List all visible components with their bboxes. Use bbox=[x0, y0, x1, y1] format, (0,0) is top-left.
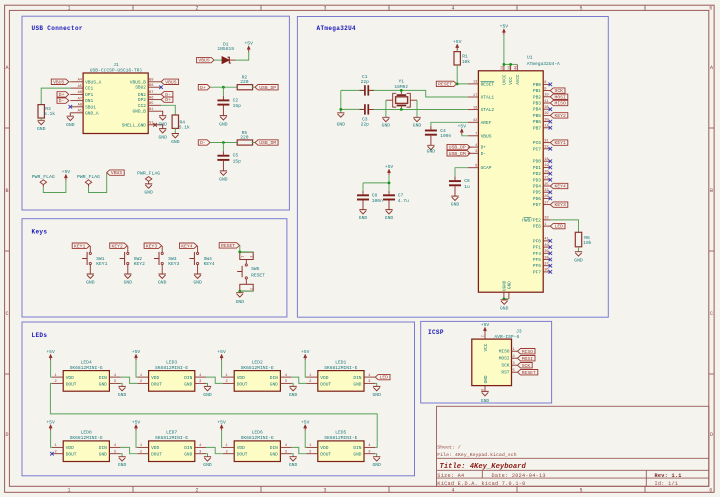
svg-text:XTAL1: XTAL1 bbox=[481, 95, 495, 101]
label MOSI (U1 PB2) bbox=[550, 94, 568, 100]
svg-text:DOUT: DOUT bbox=[66, 452, 77, 458]
svg-text:PWR_FLAG: PWR_FLAG bbox=[137, 171, 160, 177]
svg-text:44: 44 bbox=[514, 66, 518, 70]
svg-text:+5V: +5V bbox=[385, 164, 394, 170]
svg-text:GND: GND bbox=[359, 215, 368, 221]
label D- (to R5) bbox=[198, 140, 210, 146]
svg-text:3: 3 bbox=[323, 488, 326, 494]
svg-text:B1: B1 bbox=[149, 108, 154, 112]
power +5V (LED2) bbox=[217, 349, 226, 360]
svg-text:A6: A6 bbox=[78, 91, 82, 95]
svg-text:SK6812MINI-E: SK6812MINI-E bbox=[241, 435, 274, 441]
wire VBUS to D1 anode bbox=[214, 59, 222, 61]
wire XTAL1 net bbox=[341, 90, 468, 97]
svg-text:VDD: VDD bbox=[237, 375, 245, 381]
LED LED1 SK6812MINI-E bbox=[307, 359, 376, 391]
svg-text:A8: A8 bbox=[78, 104, 82, 108]
svg-text:GND: GND bbox=[203, 462, 212, 468]
svg-text:DOUT: DOUT bbox=[66, 381, 77, 387]
crystal Y1 16MHz bbox=[386, 79, 417, 110]
svg-text:KEY3: KEY3 bbox=[168, 261, 179, 267]
svg-text:25: 25 bbox=[544, 183, 548, 187]
label SCK (U1 PB1) bbox=[550, 88, 565, 94]
svg-text:+5V: +5V bbox=[301, 419, 310, 425]
svg-text:AREF: AREF bbox=[481, 120, 492, 126]
svg-text:SK6812MINI-E: SK6812MINI-E bbox=[70, 365, 103, 371]
svg-text:GND: GND bbox=[193, 279, 202, 285]
power +5V (LED4) bbox=[46, 349, 55, 360]
ground C8 bbox=[359, 210, 368, 222]
label D- (J1 left) bbox=[57, 98, 69, 104]
junction (D- / C5) bbox=[222, 141, 225, 144]
svg-text:DOUT: DOUT bbox=[151, 381, 162, 387]
svg-text:SK6812MINI-E: SK6812MINI-E bbox=[324, 365, 357, 371]
svg-text:10: 10 bbox=[544, 94, 548, 98]
label USB_DM (U1) bbox=[447, 151, 470, 157]
svg-text:100n: 100n bbox=[440, 133, 451, 139]
svg-text:SK6812MINI-E: SK6812MINI-E bbox=[241, 365, 274, 371]
wire U1 ground pins bbox=[504, 298, 509, 300]
capacitor C7 4.7u bbox=[383, 192, 409, 209]
svg-text:KEY4: KEY4 bbox=[555, 184, 566, 190]
wire J1 CC1 to R3 bbox=[41, 88, 70, 105]
svg-text:33: 33 bbox=[544, 217, 548, 221]
junction C3 gnd rail bbox=[339, 108, 342, 111]
svg-text:MOSI: MOSI bbox=[522, 356, 533, 362]
svg-text:GND_B: GND_B bbox=[132, 109, 146, 115]
svg-text:Title: 4Key_Keyboard: Title: 4Key_Keyboard bbox=[440, 463, 527, 471]
svg-text:GND: GND bbox=[184, 381, 192, 387]
svg-text:22: 22 bbox=[544, 189, 548, 193]
svg-text:GND: GND bbox=[451, 201, 460, 207]
svg-text:+5V: +5V bbox=[132, 349, 141, 355]
wire D1 cathode to +5V bbox=[236, 52, 249, 60]
no-connect U1 PF7 bbox=[549, 270, 553, 274]
svg-text:Y1: Y1 bbox=[399, 79, 405, 85]
svg-text:PF1: PF1 bbox=[533, 245, 541, 251]
svg-text:2: 2 bbox=[140, 380, 142, 384]
svg-text:SCK: SCK bbox=[555, 88, 564, 94]
svg-text:+5V: +5V bbox=[453, 39, 462, 45]
svg-text:PWR_FLAG: PWR_FLAG bbox=[32, 174, 55, 180]
svg-text:24: 24 bbox=[500, 66, 504, 70]
wire +5V to LED6 VDD bbox=[222, 431, 223, 448]
label MISO (J3) bbox=[518, 349, 536, 355]
switch SW5 RESET bbox=[237, 252, 265, 291]
svg-text:LEDs: LEDs bbox=[32, 332, 48, 339]
svg-text:DOUT: DOUT bbox=[320, 452, 331, 458]
svg-text:SK6812MINI-E: SK6812MINI-E bbox=[155, 365, 188, 371]
ground LED8 bbox=[118, 457, 127, 468]
wire C2 top bbox=[222, 87, 224, 99]
resistor R3 5.1k bbox=[38, 105, 55, 121]
power +5V (U1 VCC) bbox=[500, 24, 509, 35]
switch SW1 KEY1 bbox=[82, 246, 107, 274]
power +5V (LED3) bbox=[132, 349, 141, 360]
svg-text:A7: A7 bbox=[78, 97, 82, 101]
svg-text:DIN: DIN bbox=[353, 445, 361, 451]
svg-text:LED: LED bbox=[380, 375, 389, 381]
svg-text:Id: 1/1: Id: 1/1 bbox=[655, 481, 679, 487]
svg-text:GND: GND bbox=[289, 392, 298, 398]
ground LED2 bbox=[289, 386, 298, 397]
wire C5 top bbox=[222, 143, 224, 155]
svg-text:GND: GND bbox=[184, 452, 192, 458]
svg-text:PB5: PB5 bbox=[533, 113, 541, 119]
wire +5V to LED7 VDD bbox=[136, 431, 137, 448]
wire +5V to U1 VBUS bbox=[462, 135, 468, 136]
svg-text:5: 5 bbox=[579, 488, 582, 494]
svg-text:VDD: VDD bbox=[237, 445, 245, 451]
label KEY1 (U1 PC6) bbox=[550, 140, 568, 146]
svg-text:42: 42 bbox=[473, 119, 477, 123]
svg-text:22p: 22p bbox=[361, 79, 370, 85]
capacitor C1 22p bbox=[361, 74, 370, 96]
svg-text:PF6: PF6 bbox=[533, 263, 541, 269]
svg-text:ATmega32U4-A: ATmega32U4-A bbox=[527, 61, 560, 67]
svg-text:XTAL2: XTAL2 bbox=[481, 107, 495, 113]
wire +5V to LED3 VDD bbox=[136, 360, 137, 377]
connector J3 AVR-ISP-6 bbox=[472, 329, 522, 392]
svg-text:4.7u: 4.7u bbox=[398, 198, 409, 204]
svg-text:PB6: PB6 bbox=[533, 119, 541, 125]
svg-text:MISO: MISO bbox=[555, 101, 566, 107]
power +5V (R1) bbox=[453, 39, 462, 50]
svg-text:C8: C8 bbox=[372, 192, 378, 198]
power +5V (LED5) bbox=[301, 419, 310, 430]
ground LED1 bbox=[372, 386, 381, 397]
capacitor C8 100n bbox=[357, 192, 383, 209]
svg-text:B8: B8 bbox=[149, 84, 153, 88]
wire RESET to SW5 bbox=[239, 245, 241, 252]
svg-text:C5: C5 bbox=[233, 153, 239, 159]
svg-text:C1: C1 bbox=[362, 74, 368, 80]
svg-text:MOSI: MOSI bbox=[499, 356, 510, 362]
svg-text:20: 20 bbox=[544, 170, 548, 174]
wire LED4 DOUT to LED5 DIN (row link) bbox=[50, 383, 377, 447]
svg-text:PF0: PF0 bbox=[533, 238, 541, 244]
ground C2 bbox=[219, 116, 228, 128]
label VBUS (at D1) bbox=[197, 57, 215, 63]
svg-text:MOSI: MOSI bbox=[555, 94, 566, 100]
svg-text:A: A bbox=[5, 65, 8, 71]
svg-text:SW2: SW2 bbox=[134, 256, 143, 262]
wire LED1 GND to ground bbox=[375, 383, 376, 386]
svg-text:A5: A5 bbox=[78, 85, 82, 89]
svg-text:2: 2 bbox=[140, 451, 142, 455]
svg-text:C: C bbox=[710, 311, 713, 317]
wire LED2 GND to ground bbox=[292, 383, 293, 386]
svg-text:RESET: RESET bbox=[221, 243, 235, 249]
svg-text:GND: GND bbox=[385, 215, 394, 221]
wire LED5 DOUT to LED6 DIN bbox=[292, 447, 307, 453]
svg-text:3: 3 bbox=[199, 451, 201, 455]
svg-text:UVCC: UVCC bbox=[503, 74, 508, 85]
label LED (LED1 DIN) bbox=[375, 374, 390, 380]
wire D+ to R2 bbox=[210, 86, 237, 88]
wire LED1 DOUT to LED2 DIN bbox=[292, 377, 307, 383]
junction U1 UGND bbox=[503, 298, 506, 301]
svg-text:+5V: +5V bbox=[244, 41, 253, 47]
svg-text:GND: GND bbox=[508, 281, 513, 289]
wire UCAP to C6 bbox=[455, 168, 468, 181]
svg-text:2: 2 bbox=[54, 380, 56, 384]
label KEY3 (U1 PD7) bbox=[550, 202, 568, 208]
ground SW2 bbox=[124, 274, 133, 285]
svg-text:2: 2 bbox=[309, 380, 311, 384]
svg-text:B: B bbox=[710, 188, 713, 194]
svg-text:1N5819: 1N5819 bbox=[217, 46, 234, 52]
svg-text:10k: 10k bbox=[462, 59, 471, 65]
diode D1 1N5819 bbox=[217, 41, 235, 63]
svg-text:DIN: DIN bbox=[99, 445, 107, 451]
junction crystal pin1 bbox=[400, 89, 403, 92]
svg-text:DOUT: DOUT bbox=[151, 452, 162, 458]
wire LED3 DOUT to LED4 DIN bbox=[121, 377, 138, 383]
svg-text:18: 18 bbox=[544, 158, 548, 162]
svg-text:PB1: PB1 bbox=[533, 88, 541, 94]
label KEY4 (keys) bbox=[180, 243, 198, 249]
svg-text:PE6: PE6 bbox=[533, 224, 541, 230]
svg-text:J1: J1 bbox=[113, 62, 119, 68]
section box LEDs bbox=[22, 322, 415, 476]
svg-text:3: 3 bbox=[285, 451, 287, 455]
no-connect U1 PF4 bbox=[549, 252, 553, 256]
ground R4 bbox=[171, 134, 180, 146]
svg-text:14: 14 bbox=[507, 66, 511, 70]
label KEY4 (U1 PD4) bbox=[550, 183, 568, 189]
svg-text:GND: GND bbox=[372, 462, 381, 468]
svg-text:2: 2 bbox=[195, 6, 198, 12]
svg-text:KEY2: KEY2 bbox=[134, 261, 145, 267]
svg-text:6: 6 bbox=[709, 488, 712, 494]
svg-text:PD0: PD0 bbox=[533, 159, 541, 165]
wire PWR_FLAG1 to +5V bbox=[43, 181, 66, 193]
svg-text:GND: GND bbox=[270, 381, 278, 387]
svg-text:PB7: PB7 bbox=[533, 125, 541, 131]
junction SW5 bottom bbox=[238, 290, 241, 293]
svg-text:KEY3: KEY3 bbox=[555, 202, 566, 208]
svg-text:28: 28 bbox=[544, 106, 548, 110]
svg-text:26: 26 bbox=[544, 195, 548, 199]
svg-text:40: 40 bbox=[544, 244, 548, 248]
svg-text:VDD: VDD bbox=[66, 445, 74, 451]
svg-text:KEY1: KEY1 bbox=[74, 243, 85, 249]
label MOSI (J3) bbox=[518, 356, 536, 362]
wire U1 HWB/PE2 to R6 bbox=[550, 220, 578, 232]
svg-text:D: D bbox=[5, 432, 8, 438]
wire PWR_FLAG2 to VBUS bbox=[89, 173, 107, 193]
ground U1 bbox=[500, 300, 509, 312]
label LED (U1 PE6) bbox=[550, 223, 565, 229]
svg-text:D+: D+ bbox=[481, 145, 487, 151]
label VBUS (J1 right) bbox=[161, 79, 179, 85]
svg-text:U1: U1 bbox=[527, 54, 533, 60]
svg-text:GND: GND bbox=[382, 123, 391, 129]
svg-text:GND: GND bbox=[37, 126, 46, 132]
svg-text:3: 3 bbox=[250, 256, 254, 258]
label USB_DP bbox=[255, 85, 278, 91]
no-connect U1 PC7 bbox=[549, 147, 553, 151]
wire J1 SHELL_GND to ground bbox=[161, 125, 163, 129]
svg-text:3: 3 bbox=[114, 380, 116, 384]
svg-text:15p: 15p bbox=[233, 158, 242, 164]
wire +5V to LED2 VDD bbox=[222, 360, 223, 377]
svg-text:DIN: DIN bbox=[353, 375, 361, 381]
resistor R6 10k bbox=[575, 232, 592, 251]
svg-text:PF4: PF4 bbox=[533, 251, 541, 257]
svg-text:B9: B9 bbox=[149, 79, 153, 83]
svg-text:6: 6 bbox=[475, 165, 477, 169]
svg-text:GND: GND bbox=[353, 452, 361, 458]
resistor R1 10k bbox=[454, 50, 470, 65]
junction SW5 top bbox=[238, 251, 241, 254]
svg-text:VBUS: VBUS bbox=[481, 133, 492, 139]
svg-text:PC6: PC6 bbox=[533, 140, 541, 146]
no-connect U1 PD0 bbox=[549, 159, 553, 163]
svg-text:4: 4 bbox=[451, 6, 454, 12]
svg-text:11: 11 bbox=[544, 100, 549, 104]
svg-text:DN2: DN2 bbox=[138, 92, 146, 98]
title block bbox=[437, 406, 709, 487]
LED LED8 SK6812MINI-E bbox=[52, 430, 121, 462]
wire LED7 DOUT to LED8 DIN bbox=[121, 447, 138, 453]
svg-text:B5: B5 bbox=[149, 102, 153, 106]
svg-text:GND: GND bbox=[353, 381, 361, 387]
svg-text:5.1k: 5.1k bbox=[44, 111, 55, 117]
wire R5 to USB_DM bbox=[252, 142, 255, 144]
svg-text:SCK: SCK bbox=[501, 363, 509, 369]
svg-text:+5V: +5V bbox=[62, 169, 71, 175]
section box ATmega32U4 bbox=[297, 17, 608, 318]
svg-text:C2: C2 bbox=[233, 97, 239, 103]
ground J1 SHELL_GND bbox=[158, 129, 167, 141]
svg-text:RST: RST bbox=[501, 370, 509, 376]
svg-text:A4: A4 bbox=[78, 79, 83, 83]
junction U1 VCC bbox=[509, 63, 512, 66]
no-connect U1 PD2 bbox=[549, 172, 553, 176]
svg-text:USB_DM: USB_DM bbox=[259, 140, 276, 146]
svg-text:USB-C(CSP-USC16-TR): USB-C(CSP-USC16-TR) bbox=[90, 68, 142, 74]
wire XTAL2 net bbox=[341, 108, 468, 110]
svg-text:32: 32 bbox=[544, 146, 548, 150]
svg-text:VBUS: VBUS bbox=[198, 58, 209, 64]
ground SW3 bbox=[158, 274, 167, 285]
svg-text:PC7: PC7 bbox=[533, 146, 541, 152]
svg-text:30: 30 bbox=[544, 118, 548, 122]
svg-text:SBU1: SBU1 bbox=[85, 104, 96, 110]
svg-text:DOUT: DOUT bbox=[237, 381, 248, 387]
LED LED7 SK6812MINI-E bbox=[137, 430, 206, 462]
section box ICSP bbox=[421, 321, 552, 403]
svg-text:3: 3 bbox=[368, 451, 370, 455]
wire LED7 GND to ground bbox=[206, 454, 207, 457]
ground LED3 bbox=[203, 386, 212, 397]
ground SW5 bbox=[236, 293, 245, 306]
no-connect U1 PF1 bbox=[549, 245, 553, 249]
svg-text:17: 17 bbox=[473, 94, 477, 98]
svg-text:VCC: VCC bbox=[484, 343, 489, 351]
svg-text:GND: GND bbox=[481, 398, 490, 404]
wire VBUS to J1 VBUS_A bbox=[69, 81, 71, 83]
power +5V (LED1) bbox=[301, 349, 310, 360]
svg-text:SBU2: SBU2 bbox=[135, 85, 146, 91]
svg-text:GND: GND bbox=[99, 452, 107, 458]
label D+ (J1 right) bbox=[161, 97, 173, 103]
svg-text:KEY3: KEY3 bbox=[146, 243, 157, 249]
svg-text:GND: GND bbox=[427, 149, 436, 155]
svg-text:KEY2: KEY2 bbox=[112, 243, 123, 249]
svg-text:Keys: Keys bbox=[32, 229, 48, 236]
svg-text:C3: C3 bbox=[362, 116, 368, 122]
wire D- to R5 bbox=[210, 142, 237, 144]
svg-text:UCAP: UCAP bbox=[481, 165, 492, 171]
label MISO (U1 PB3) bbox=[550, 100, 568, 106]
svg-text:19: 19 bbox=[544, 164, 548, 168]
svg-text:36: 36 bbox=[544, 269, 548, 273]
ground R3 bbox=[37, 120, 46, 132]
svg-text:D+: D+ bbox=[200, 85, 206, 91]
label KEY1 (keys) bbox=[72, 243, 90, 249]
LED LED4 SK6812MINI-E bbox=[52, 359, 121, 391]
wire AREF to C4 bbox=[431, 122, 468, 129]
svg-text:GND: GND bbox=[270, 452, 278, 458]
power flag PWR_FLAG 3 bbox=[137, 171, 160, 184]
ground SW1 bbox=[86, 274, 95, 285]
ground C4 bbox=[427, 145, 436, 154]
svg-text:GND: GND bbox=[372, 392, 381, 398]
svg-text:Rev: 1.1: Rev: 1.1 bbox=[655, 473, 682, 479]
power +5V (U1 VBUS) bbox=[458, 123, 467, 134]
LED LED5 SK6812MINI-E bbox=[307, 430, 376, 462]
svg-text:PD3: PD3 bbox=[533, 177, 541, 183]
LED LED2 SK6812MINI-E bbox=[223, 359, 292, 391]
no-connect U1 PF6 bbox=[549, 264, 553, 268]
no-connect U1 PB7 bbox=[549, 126, 553, 130]
svg-text:PB0: PB0 bbox=[533, 82, 541, 88]
svg-text:MISO: MISO bbox=[522, 349, 533, 355]
label KEY2 (U1 PB5) bbox=[550, 113, 568, 119]
ground C7 bbox=[385, 210, 394, 222]
svg-text:DN1: DN1 bbox=[85, 98, 93, 104]
svg-text:LED4: LED4 bbox=[81, 359, 92, 365]
svg-text:DOUT: DOUT bbox=[237, 452, 248, 458]
svg-text:LED6: LED6 bbox=[252, 430, 263, 436]
svg-text:USB Connector: USB Connector bbox=[32, 25, 83, 32]
svg-text:PD7: PD7 bbox=[533, 202, 541, 208]
svg-text:GND: GND bbox=[171, 139, 180, 145]
no-connect U1 PB6 bbox=[549, 120, 553, 124]
no-connect U1 PF5 bbox=[549, 258, 553, 262]
svg-text:C7: C7 bbox=[398, 192, 404, 198]
label VBUS (PWR_FLAG) bbox=[107, 170, 125, 176]
wire LED5 GND to ground bbox=[375, 454, 376, 457]
connector J1 USB-C(CSP-USC16-TR) bbox=[70, 62, 161, 134]
svg-text:GND: GND bbox=[203, 392, 212, 398]
svg-text:KEY4: KEY4 bbox=[204, 261, 215, 267]
svg-text:+5V: +5V bbox=[481, 322, 490, 328]
svg-text:C: C bbox=[5, 311, 8, 317]
svg-text:Size: A4: Size: A4 bbox=[437, 473, 464, 479]
svg-text:29: 29 bbox=[544, 112, 548, 116]
svg-text:RESET: RESET bbox=[251, 272, 265, 278]
svg-text:31: 31 bbox=[544, 139, 549, 143]
svg-text:GND: GND bbox=[484, 375, 489, 383]
wire SW5 to ground bbox=[239, 291, 241, 293]
svg-text:ATmega32U4: ATmega32U4 bbox=[317, 25, 357, 32]
ground C5 bbox=[219, 171, 228, 183]
wire LED6 DOUT to LED7 DIN bbox=[206, 447, 223, 453]
